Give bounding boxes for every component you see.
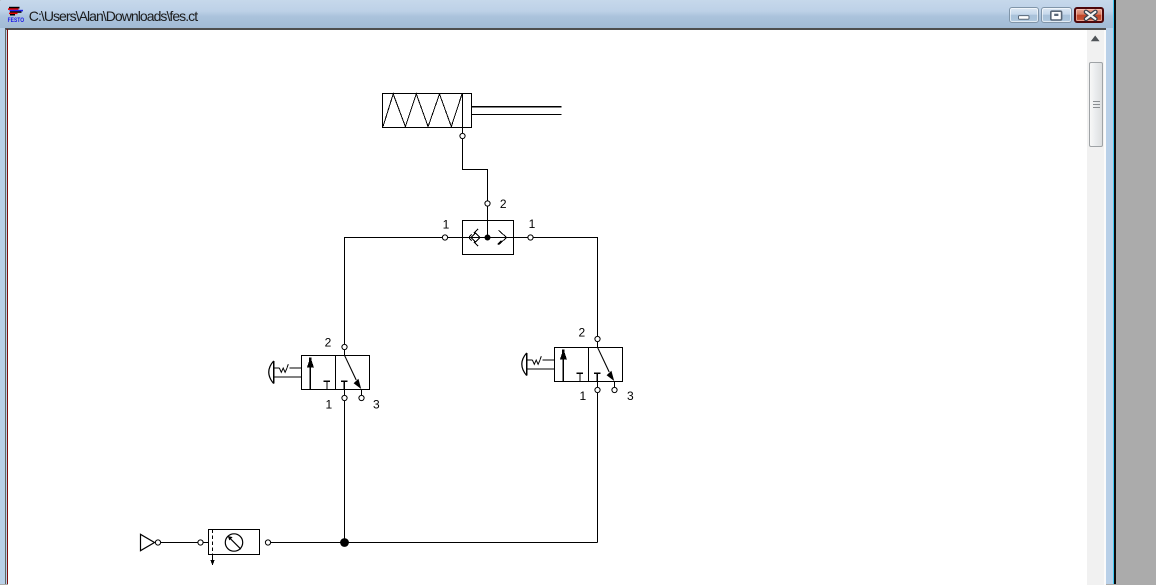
junction dot [340, 538, 349, 547]
cylinder A1 (single-acting, spring return) [383, 94, 562, 139]
bottom supply rail [271, 542, 598, 544]
svg-text:1: 1 [325, 397, 332, 411]
wire shuttle left to valve V1 [345, 235, 463, 345]
svg-text:1: 1 [443, 218, 450, 232]
maximize button [1041, 7, 1072, 23]
push-button actuator V2 [526, 353, 528, 376]
svg-text:2: 2 [578, 325, 585, 339]
svg-text:1: 1 [579, 389, 586, 403]
compressed air source [141, 534, 161, 550]
close button [1074, 7, 1105, 23]
wire V1 port 1 down to junction [344, 401, 346, 543]
svg-text:3: 3 [373, 397, 380, 411]
FESTO FluidSIM window icon [7, 0, 35, 26]
svg-text:1: 1 [529, 217, 536, 231]
wire cylinder to shuttle valve [463, 139, 491, 221]
svg-text:2: 2 [500, 197, 507, 211]
wire V2 port 1 down to bottom rail [597, 393, 599, 543]
minimize button [1009, 7, 1040, 23]
scrollbar thumb [1089, 62, 1103, 147]
svg-text:3: 3 [627, 389, 634, 403]
3/2-way valve V1 (push-button, left) [269, 344, 370, 400]
wire shuttle right to valve V2 [514, 235, 598, 337]
service unit (filter/regulator) [198, 530, 271, 566]
push-button actuator V1 [273, 361, 275, 384]
3/2-way valve V2 (push-button, right) [522, 336, 623, 392]
drawing area red edge line [7, 29, 9, 584]
window title [29, 8, 197, 24]
shuttle valve (OR) [463, 221, 514, 255]
svg-text:2: 2 [325, 336, 332, 350]
wire source to service unit [161, 542, 209, 544]
scrollbar up arrow [1087, 30, 1104, 48]
